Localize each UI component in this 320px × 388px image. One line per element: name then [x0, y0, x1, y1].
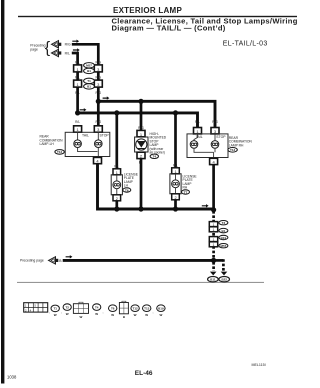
license plate lamp LH: [111, 175, 122, 195]
legend oval T1: [51, 305, 59, 317]
off-page arrow R/L (bottom of pair): [52, 49, 62, 56]
LH lamp internal wires: [78, 148, 99, 158]
license LH pin bottom: [113, 195, 121, 201]
connector id oval B1: [219, 228, 228, 232]
inline connector pair B lower: [209, 242, 217, 247]
RH lamp output pin 4: [210, 158, 218, 164]
connector id oval T4: [150, 154, 158, 159]
license plate lamp RH: [170, 174, 181, 194]
svg-text:R/L: R/L: [195, 120, 200, 124]
ground left body ground: [208, 277, 219, 282]
svg-text:EL-TAIL/L-03: EL-TAIL/L-03: [223, 40, 268, 47]
wire R/L horizontal from arrow: [72, 53, 78, 65]
svg-text:W: W: [111, 313, 114, 317]
svg-text:R/G: R/G: [95, 60, 101, 64]
rear combination lamp LH box: [65, 132, 110, 156]
inline connector pair B upper: [209, 237, 217, 242]
svg-text:T1: T1: [53, 307, 57, 311]
svg-text:{: {: [45, 40, 51, 57]
svg-text:R/L: R/L: [75, 120, 80, 124]
direction arrow on ground bus: [202, 204, 209, 207]
svg-text:,: ,: [49, 310, 50, 314]
inline connector row 1, left pin pair: [74, 65, 82, 72]
svg-text:R/G: R/G: [95, 75, 101, 79]
direction arrow on B wire: [66, 255, 73, 258]
svg-text:W: W: [134, 313, 137, 317]
svg-text:R/L: R/L: [75, 60, 80, 64]
connector id oval T12: [55, 150, 64, 155]
label HIGH-MOUNTED STOP LAMP: [150, 132, 167, 155]
svg-text:,: ,: [153, 310, 154, 314]
junction dot R/G bus left: [96, 99, 101, 104]
wire high-mounted to ground bus: [140, 159, 143, 209]
license LH pin top: [113, 169, 121, 175]
svg-text:,: ,: [61, 310, 62, 314]
wire from LH pin 4 to ground bus: [98, 164, 214, 209]
junction dot ground bus right end: [211, 207, 216, 212]
legend oval T4: [93, 304, 101, 316]
svg-text:STOP: STOP: [216, 135, 226, 139]
svg-text:R/G: R/G: [65, 43, 71, 47]
svg-text:RH: RH: [183, 186, 188, 190]
header rule: [18, 16, 297, 17]
svg-text:TAIL: TAIL: [82, 134, 89, 138]
svg-text:2: 2: [116, 197, 118, 201]
off-page arrow R/G (top): [52, 41, 62, 48]
svg-text:R/G: R/G: [138, 126, 144, 130]
legend connector face M57: [24, 303, 48, 313]
RH stop pin: [211, 128, 219, 134]
svg-text:T7: T7: [184, 190, 188, 194]
svg-text:B22: B22: [221, 278, 227, 282]
wire between connector rows right: [97, 72, 100, 80]
legend oval B19: [157, 305, 165, 317]
connector id oval M57: [219, 244, 228, 249]
ground arrow left: [210, 272, 217, 276]
high-mounted pin 1: [137, 130, 145, 136]
svg-text:W: W: [54, 313, 57, 317]
svg-text:LAMP RH: LAMP RH: [229, 143, 244, 147]
upper bus R/G: [98, 101, 215, 127]
svg-text:LAMP-LH: LAMP-LH: [40, 142, 55, 146]
svg-text:1: 1: [116, 171, 118, 175]
junction dot high-mounted at ground bus: [138, 206, 143, 211]
svg-text:R/L: R/L: [65, 51, 70, 55]
svg-text:B19: B19: [158, 307, 164, 311]
off-page arrow B: [49, 257, 59, 264]
license RH pin top: [172, 168, 180, 174]
wire drop to license plate lamp LH: [115, 113, 118, 169]
legend oval T6: [109, 305, 117, 317]
connector id oval B19: [219, 235, 228, 240]
rear combination lamp RH box: [187, 134, 228, 158]
svg-text:EXTERIOR LAMP: EXTERIOR LAMP: [113, 6, 182, 15]
svg-text:B1: B1: [87, 85, 91, 89]
label REAR COMBINATION LAMP-LH: [40, 135, 64, 146]
inline connector row 2, left pin pair: [74, 80, 82, 87]
connector id ovals row 1: [84, 63, 95, 74]
svg-text:T13: T13: [144, 307, 150, 311]
lower bus R/L: [78, 113, 198, 128]
svg-text:T3: T3: [222, 221, 226, 225]
svg-text:T4: T4: [95, 305, 99, 309]
RH lamp internal wires: [194, 148, 215, 158]
wire RH pin4 down through connectors: [212, 165, 215, 211]
connector id ovals row 2: [84, 78, 95, 89]
svg-text:M57: M57: [220, 244, 226, 248]
ground right body ground: [219, 277, 230, 282]
junction dot license LH drop: [114, 110, 119, 115]
LH lamp output pin 4: [94, 157, 102, 163]
legend oval T12: [131, 305, 139, 317]
LH tail bulb: [74, 132, 82, 147]
high-mounted pin 2: [137, 152, 145, 158]
direction arrow on R/G wire: [72, 40, 79, 43]
wire branch to right ground: [214, 259, 224, 262]
svg-text:LH: LH: [124, 184, 129, 188]
svg-text:1: 1: [213, 243, 215, 247]
svg-text:T12: T12: [57, 150, 63, 154]
junction dot license LH at ground bus: [114, 206, 119, 211]
wire to left ground: [212, 262, 215, 271]
legend connector face T7: [119, 301, 128, 319]
footer: [7, 363, 266, 380]
page edge black bar: [1, 0, 4, 384]
svg-text:W: W: [79, 315, 82, 319]
direction arrow on R/L wire: [73, 48, 80, 51]
LH stop pin: [94, 126, 102, 132]
high-mounted stop lamp U1: [135, 137, 148, 152]
svg-text:T6: T6: [125, 188, 129, 192]
direction arrow on upper bus: [103, 96, 110, 99]
label LICENSE PLATE LAMP LH: [124, 172, 139, 187]
svg-text:W: W: [95, 312, 98, 316]
svg-text:B1: B1: [87, 69, 91, 73]
legend oval T2: [63, 304, 71, 316]
connector id oval T6: [123, 188, 131, 193]
wire license RH to ground bus: [174, 200, 177, 209]
svg-text:2: 2: [174, 196, 176, 200]
label LICENSE PLATE LAMP RH: [183, 174, 198, 189]
svg-text:R/L: R/L: [173, 164, 178, 168]
svg-text:T6: T6: [111, 307, 115, 311]
ground arrow right: [221, 272, 228, 276]
wire drop to license plate lamp RH: [174, 113, 177, 168]
junction dot B wire: [211, 258, 216, 263]
RH tail pin: [194, 128, 202, 134]
svg-text:page: page: [30, 47, 38, 51]
svg-text:R/L: R/L: [114, 165, 119, 169]
svg-text:B19: B19: [221, 236, 227, 240]
svg-text:T13: T13: [230, 148, 236, 152]
LH stop bulb: [95, 132, 103, 147]
inline connector pair A upper: [209, 222, 217, 227]
svg-text:M57: M57: [86, 64, 92, 68]
junction dot license RH drop: [173, 110, 178, 115]
RH tail bulb: [190, 134, 198, 148]
inline connector pair A lower: [209, 227, 217, 232]
svg-text:1: 1: [174, 170, 176, 174]
svg-text:T4: T4: [153, 155, 157, 159]
wire license LH to ground bus: [115, 201, 118, 209]
legend connector face T3: [73, 302, 88, 319]
svg-text:R/G: R/G: [95, 120, 101, 124]
svg-text:MEL115I: MEL115I: [252, 363, 266, 367]
svg-text:,: ,: [103, 310, 104, 314]
junction dot high-mounted drop: [138, 99, 143, 104]
svg-text:R/L: R/L: [75, 75, 80, 79]
svg-text:R/G: R/G: [212, 120, 218, 124]
connector id oval T7: [182, 190, 190, 195]
wire R/G horizontal from arrow: [72, 44, 99, 65]
inline connector row 1, right pin pair: [94, 65, 102, 72]
wire drop to high-mounted stop lamp: [140, 101, 143, 130]
svg-text:T12: T12: [133, 307, 139, 311]
svg-text:B1: B1: [221, 229, 225, 233]
legend oval T13: [143, 305, 151, 317]
RH stop bulb: [211, 134, 219, 148]
wire R/G column down to stop pin: [97, 87, 100, 126]
svg-text:Preceding page: Preceding page: [20, 259, 44, 263]
wire B to junction: [63, 259, 214, 262]
svg-text:1038: 1038: [7, 374, 17, 379]
label REAR COMBINATION LAMP RH: [229, 136, 253, 147]
svg-text:W: W: [145, 313, 148, 317]
junction dot R/L bus left: [75, 110, 80, 115]
connector id oval T3: [219, 221, 228, 226]
wire between connector rows left: [76, 72, 79, 80]
preceding page label (top): [30, 40, 51, 57]
svg-text:T2: T2: [65, 305, 69, 309]
junction dot license RH at ground bus: [173, 206, 178, 211]
svg-text:STOP: STOP: [100, 134, 110, 138]
svg-text:W: W: [159, 313, 162, 317]
svg-text:Diagram — TAIL/L — (Cont’d): Diagram — TAIL/L — (Cont’d): [112, 24, 226, 33]
svg-text:W: W: [66, 312, 69, 316]
connector id oval T13: [228, 148, 237, 153]
svg-text:EL-46: EL-46: [135, 370, 153, 377]
LH tail pin: [74, 126, 82, 132]
wire R/L column down to lower bus: [76, 87, 79, 113]
svg-text:T1: T1: [87, 79, 91, 83]
inline connector row 2, right pin pair: [94, 80, 102, 87]
svg-text:B11: B11: [210, 278, 216, 282]
svg-text:1: 1: [213, 228, 215, 232]
license RH pin bottom: [172, 194, 180, 200]
direction arrow on lower bus: [80, 108, 87, 111]
faint separator line: [17, 282, 264, 283]
